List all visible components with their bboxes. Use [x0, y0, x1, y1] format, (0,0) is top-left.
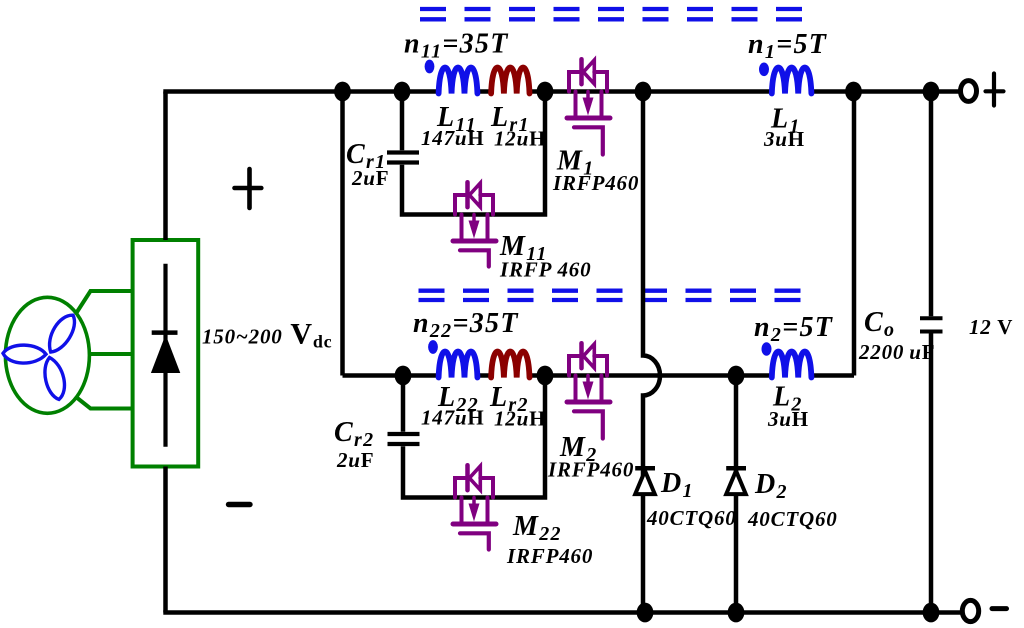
svg-text:12uH: 12uH: [494, 407, 546, 431]
diode D1: [635, 468, 655, 494]
svg-text:n1=5T: n1=5T: [748, 29, 828, 63]
generator to rectifier wire top: [76, 291, 133, 314]
mosfet M11: [453, 182, 496, 266]
wire top rail: [163, 89, 960, 94]
rectifier diode triangle: [151, 335, 180, 373]
node D2 top: [728, 366, 745, 386]
inductor L22 polarity dot: [428, 340, 438, 354]
wire Cr1 bottom lead + cell1 lower wire: [402, 92, 545, 215]
inductor L1 polarity dot: [759, 63, 769, 77]
svg-text:2uF: 2uF: [336, 448, 374, 472]
wire Cr2 bottom lead + cell2 lower wire: [403, 376, 545, 498]
rectifier diode cathode bar: [152, 330, 178, 335]
wind turbine generator: [5, 297, 89, 413]
turbine blade lower: [42, 356, 67, 401]
svg-text:n11=35T: n11=35T: [404, 29, 509, 63]
inductor L11 coil: [439, 68, 478, 94]
wire M1 output drop with hop over cell2: [643, 92, 660, 613]
bridge rectifier box: [133, 240, 199, 467]
inductor Lr1 coil: [491, 68, 529, 94]
node Cr2 top: [395, 366, 412, 386]
node D2 bottom: [728, 603, 745, 623]
node top rail / cell input: [334, 82, 351, 102]
svg-text:IRFP460: IRFP460: [552, 171, 639, 195]
svg-text:147uH: 147uH: [421, 126, 485, 150]
node cell2 resonant junction: [537, 366, 554, 386]
diode D2: [726, 468, 746, 494]
capacitor Cr1 plates: [387, 153, 419, 163]
generator to rectifier wire middle: [89, 352, 133, 356]
wire bottom rail: [163, 610, 961, 615]
inductor L2 polarity dot: [762, 342, 772, 356]
polarity plus (input): [235, 169, 262, 208]
svg-text:12uH: 12uH: [494, 127, 546, 151]
wire Cr2 top lead: [401, 376, 406, 432]
svg-text:2200 uF: 2200 uF: [858, 340, 935, 364]
node Co bottom: [923, 603, 940, 623]
inductor L11 polarity dot: [425, 60, 435, 74]
output terminal plus circle: [961, 81, 977, 102]
inductor Lr2 coil: [491, 352, 529, 378]
node Cr1 top: [394, 82, 411, 102]
wire left vertical: [163, 92, 168, 241]
capacitor Co plates: [920, 318, 943, 331]
rectifier diode lead: [163, 264, 167, 447]
capacitor Cr2 plates: [388, 434, 420, 444]
wire Co branch: [929, 92, 934, 613]
inductor L2 coil: [772, 352, 812, 378]
mosfet M2: [567, 343, 610, 438]
mosfet M22: [453, 465, 496, 549]
svg-text:147uH: 147uH: [421, 406, 485, 430]
svg-text:40CTQ60: 40CTQ60: [747, 507, 838, 531]
svg-text:2uF: 2uF: [351, 166, 389, 190]
transformer core T1 (dashed): [420, 9, 804, 19]
svg-text:12 V: 12 V: [969, 315, 1013, 339]
inductor L22 coil: [439, 352, 478, 378]
mosfet M1: [567, 59, 610, 154]
svg-text:40CTQ60: 40CTQ60: [646, 506, 737, 530]
node L1/L2 output: [845, 82, 862, 102]
wire cell1 input drop (x=342.5 to cell2): [340, 92, 345, 376]
output terminal minus circle: [962, 600, 978, 621]
svg-text:IRFP460: IRFP460: [506, 544, 593, 568]
turbine blade upper-right: [42, 311, 81, 357]
generator to rectifier wire bottom: [76, 397, 133, 409]
svg-text:IRFP 460: IRFP 460: [499, 257, 591, 281]
svg-text:n2=5T: n2=5T: [754, 312, 834, 346]
wire L2 output rise (x=854): [852, 92, 857, 376]
output plus sign: [986, 74, 1004, 106]
node M1 output top: [635, 82, 652, 102]
turbine blade left: [2, 344, 46, 365]
wire cell2 main: [343, 373, 855, 378]
node D1 bottom: [637, 603, 654, 623]
node Co top: [923, 82, 940, 102]
polarity minus (input): [229, 502, 251, 507]
wire D2 drop: [734, 376, 739, 613]
svg-text:3uH: 3uH: [763, 127, 805, 151]
svg-text:3uH: 3uH: [767, 407, 809, 431]
wire Cr1 top lead: [400, 92, 405, 151]
node cell1 resonant junction: [537, 82, 554, 102]
svg-text:IRFP460: IRFP460: [547, 458, 634, 482]
inductor L1 coil: [772, 68, 812, 94]
transformer core T2 (dashed): [419, 291, 804, 300]
svg-text:n22=35T: n22=35T: [413, 308, 519, 342]
output minus sign: [992, 606, 1007, 611]
